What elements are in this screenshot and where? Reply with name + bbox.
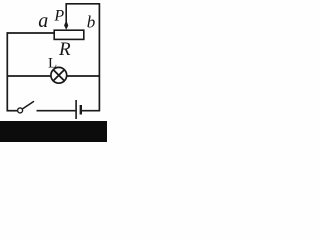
slider P riser wire: [65, 3, 67, 22]
wire: bottom middle from switch contact to battery: [37, 110, 76, 112]
battery long plate: [75, 100, 77, 119]
svg-text:a: a: [38, 10, 48, 32]
battery short plate: [80, 105, 82, 115]
slider P arrowhead: [64, 20, 68, 30]
svg-text:b: b: [87, 13, 96, 32]
lamp L circle: [51, 67, 67, 83]
switch pivot circle: [18, 108, 23, 113]
wire: top horizontal from slider riser to right side: [66, 3, 101, 5]
wire: middle branch left of lamp: [7, 75, 52, 77]
svg-text:R: R: [58, 39, 71, 60]
wire: bottom right from battery to right side: [82, 110, 100, 112]
wire: left vertical side: [6, 32, 8, 111]
rheostat R box: [54, 30, 84, 39]
black bar at bottom of scan: [0, 121, 107, 142]
wire: middle branch right of lamp: [66, 75, 100, 77]
svg-text:P: P: [53, 8, 64, 25]
wire: horizontal from left side to rheostat terminal a: [7, 32, 55, 34]
wire: right vertical side: [98, 3, 100, 111]
wire: bottom left lead to switch: [7, 110, 18, 112]
switch lever: [23, 101, 35, 109]
lamp L cross: [53, 70, 64, 81]
